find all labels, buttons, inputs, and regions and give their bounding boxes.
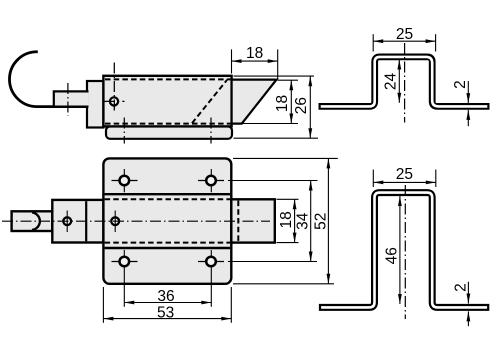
svg-text:26: 26 <box>293 97 310 114</box>
svg-text:53: 53 <box>157 305 174 322</box>
svg-text:52: 52 <box>312 213 329 230</box>
svg-text:25: 25 <box>396 166 413 183</box>
svg-text:25: 25 <box>396 26 413 43</box>
svg-text:46: 46 <box>384 247 401 264</box>
svg-text:18: 18 <box>246 45 263 62</box>
svg-text:2: 2 <box>452 80 469 89</box>
svg-text:18: 18 <box>274 95 291 112</box>
svg-text:34: 34 <box>295 212 312 230</box>
svg-text:2: 2 <box>453 283 470 292</box>
svg-text:18: 18 <box>278 211 295 228</box>
svg-text:24: 24 <box>383 73 400 91</box>
svg-text:36: 36 <box>157 288 174 305</box>
